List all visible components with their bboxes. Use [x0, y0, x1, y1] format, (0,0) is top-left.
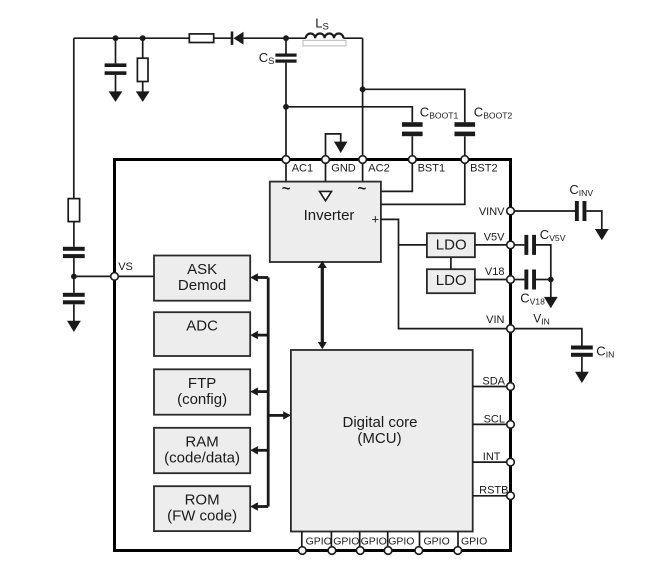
- capacitor CINV: [575, 201, 602, 230]
- wire bus arrow to ASK Demod: [250, 273, 268, 281]
- wire AC1 pin to inverter: [285, 160, 287, 182]
- pin GPIO6: [454, 547, 462, 555]
- ground (left chain): [67, 321, 81, 332]
- wire bus arrow to RAM: [250, 446, 268, 454]
- resistor (left divider): [68, 199, 79, 222]
- svg-text:VINV: VINV: [479, 206, 505, 218]
- pin GPIO4: [384, 547, 392, 555]
- pin VINV: [507, 207, 515, 215]
- svg-text:~: ~: [358, 181, 367, 198]
- node junction top-left resistor: [140, 35, 146, 41]
- svg-text:GPIO: GPIO: [424, 536, 450, 548]
- wire INT: [473, 461, 507, 463]
- svg-text:SDA: SDA: [482, 375, 505, 387]
- svg-text:GPIO: GPIO: [461, 536, 487, 548]
- wire bus arrow to ROM: [250, 502, 268, 510]
- wire AC2 pin to inverter: [362, 160, 364, 182]
- pin VS: [111, 273, 119, 281]
- svg-text:LDO: LDO: [436, 272, 467, 289]
- wire to VS pin: [74, 275, 111, 277]
- wire inverter plus output to VIN: [381, 219, 507, 328]
- svg-text:AC2: AC2: [368, 162, 389, 174]
- svg-text:Demod: Demod: [178, 277, 226, 294]
- svg-text:LDO: LDO: [436, 236, 467, 253]
- wire resistor to diode: [214, 37, 231, 39]
- block ROM (FW code): [154, 486, 250, 531]
- wire bus arrow to FTP: [250, 387, 268, 395]
- wire V5V external: [514, 244, 524, 246]
- pin GND: [322, 156, 330, 164]
- pin BST1: [409, 156, 417, 164]
- wire SCL: [473, 423, 507, 425]
- svg-text:FTP: FTP: [188, 375, 216, 392]
- ground (CINV): [595, 229, 609, 240]
- wire LDO1 input: [399, 244, 427, 246]
- wire LDO2 output to V18: [475, 279, 507, 281]
- svg-text:GPIO: GPIO: [361, 536, 387, 548]
- wire CBOOT2 branch: [363, 89, 465, 159]
- node junction top-left cap: [113, 35, 119, 41]
- wire bus arrow to ADC: [250, 331, 268, 339]
- pin BST2: [461, 156, 469, 164]
- op-amp U1 inverter block: [270, 182, 381, 262]
- wire top net (left corner to resistor): [74, 38, 190, 198]
- pin VIN: [507, 325, 515, 333]
- svg-text:V18: V18: [485, 266, 505, 278]
- resistor R1 (series, top): [189, 34, 213, 43]
- regulator LDO2: [427, 269, 475, 293]
- resistor (shunt, top-left): [137, 38, 148, 92]
- ground (CIN): [575, 372, 589, 383]
- wire GND pin internal: [325, 160, 327, 192]
- svg-text:RSTB: RSTB: [479, 484, 508, 496]
- svg-text:SCL: SCL: [484, 413, 505, 425]
- pin V5V: [507, 241, 515, 249]
- svg-text:BST1: BST1: [418, 162, 446, 174]
- pin INT: [507, 458, 515, 466]
- capacitor CIN: [571, 346, 593, 373]
- wire SDA: [473, 386, 507, 388]
- svg-text:~: ~: [282, 181, 291, 198]
- wire inverter-core double arrow: [318, 261, 327, 349]
- svg-text:INT: INT: [483, 451, 501, 463]
- wire VIN external: [514, 329, 582, 346]
- svg-text:AC1: AC1: [292, 162, 313, 174]
- node VS ext junction: [71, 274, 77, 280]
- capacitor CBOOT2: [455, 122, 476, 136]
- pin AC1: [282, 156, 290, 164]
- svg-text:(code/data): (code/data): [164, 449, 240, 466]
- ground (below top-left resistor): [136, 91, 150, 102]
- svg-text:Inverter: Inverter: [304, 207, 355, 224]
- svg-text:GPIO: GPIO: [388, 536, 414, 548]
- svg-text:ASK: ASK: [187, 261, 217, 278]
- pin GPIO3: [356, 547, 364, 555]
- block ASK Demod: [154, 256, 250, 301]
- node B (Cs bottom / CBOOT1 tap): [283, 104, 289, 110]
- wire junction to ground: [550, 280, 552, 298]
- svg-text:(config): (config): [177, 391, 227, 408]
- GPIO cell dividers: [302, 532, 458, 550]
- svg-text:(MCU): (MCU): [357, 430, 401, 447]
- inductor LS: [286, 34, 363, 46]
- wire resistor to cap: [73, 222, 75, 247]
- wire VS to ASK demod: [118, 275, 154, 277]
- svg-text:ADC: ADC: [186, 318, 218, 335]
- block RAM (code/data): [154, 428, 250, 473]
- svg-text:Digital core: Digital core: [342, 414, 417, 431]
- capacitor (left upper): [63, 247, 85, 293]
- svg-text:ROM: ROM: [185, 492, 220, 509]
- ground (CV5V/CV18): [544, 297, 558, 308]
- pin SCL: [507, 421, 515, 429]
- svg-text:RAM: RAM: [185, 433, 218, 450]
- wire V18 external: [514, 279, 524, 281]
- svg-text:(FW code): (FW code): [167, 508, 237, 525]
- node C (AC2 line / CBOOT2 tap): [360, 86, 366, 92]
- capacitor CS: [275, 38, 296, 159]
- svg-text:GPIO: GPIO: [306, 536, 332, 548]
- wire VINV external: [514, 210, 575, 212]
- pin GPIO5: [415, 547, 423, 555]
- svg-text:GPIO: GPIO: [333, 536, 359, 548]
- node CV5V/CV18 junction: [548, 277, 554, 283]
- pin GPIO2: [328, 547, 336, 555]
- wire LDO1 output to V5V: [475, 244, 507, 246]
- wire RSTB: [473, 495, 507, 497]
- pin SDA: [507, 383, 515, 391]
- pin RSTB: [507, 492, 515, 500]
- capacitor CBOOT1: [402, 122, 423, 136]
- ground (internal GND triangle): [320, 191, 332, 200]
- wire GND pin to external ground: [326, 134, 341, 157]
- pin GPIO1: [299, 547, 307, 555]
- ground (below top-left capacitor): [109, 91, 123, 102]
- capacitor CV18: [524, 270, 550, 290]
- ground (GND pin arrow): [334, 142, 347, 153]
- capacitor (input filter, top-left): [105, 38, 127, 92]
- wire LDO1 to LDO2: [450, 257, 452, 269]
- wire bus arrow to digital core: [268, 411, 291, 419]
- wire diode to node: [244, 37, 287, 39]
- wire BST1 pin to inverter: [381, 160, 412, 192]
- node A (top node at Cs / Ls): [283, 35, 289, 41]
- wire bus spine: [267, 278, 270, 507]
- wire BST2 pin to inverter: [381, 160, 465, 205]
- IC main chip body: [115, 160, 511, 551]
- svg-text:VIN: VIN: [486, 314, 504, 326]
- svg-text:+: +: [372, 212, 380, 227]
- pin AC2: [359, 156, 367, 164]
- block Digital core (MCU): [291, 350, 473, 532]
- capacitor (left lower): [63, 293, 85, 322]
- svg-text:VS: VS: [118, 261, 133, 273]
- wire CBOOT1 branch: [286, 107, 412, 160]
- diode D1: [231, 32, 244, 45]
- block FTP (config): [154, 369, 250, 414]
- block ADC: [154, 312, 250, 356]
- regulator LDO1: [427, 233, 475, 257]
- svg-text:BST2: BST2: [470, 162, 498, 174]
- svg-text:GND: GND: [331, 162, 356, 174]
- capacitor CV5V: [524, 235, 550, 280]
- pin V18: [507, 276, 515, 284]
- svg-text:V5V: V5V: [484, 232, 505, 244]
- wire AC2 drop from inductor: [362, 38, 364, 159]
